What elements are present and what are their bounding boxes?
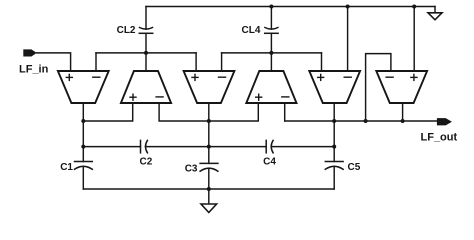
wire OTA4 output stub [270, 53, 272, 71]
wire CL4 bottom lead [270, 33, 272, 53]
wire OTA2 - input to node V2 rail and OTA4 + input [159, 103, 258, 121]
OTA3 plus sign [192, 74, 198, 80]
junction output rail / OTA6 out [401, 119, 405, 123]
capacitor C2 [141, 140, 148, 152]
wire node V1 column below C1 [82, 167, 84, 189]
op-amp OTA6 (output transconductor, wide-top, inputs reversed) [376, 71, 427, 103]
junction node V3 / OTA5 out [332, 119, 336, 123]
wire OTA3 - input stub [221, 53, 223, 71]
wire OTA3 + input stub [195, 53, 197, 71]
wire OTA5 + input stub [321, 53, 323, 71]
junction node V1 / C2 rail [81, 145, 85, 149]
op-amp OTA5 (wide-top) [309, 71, 360, 103]
wire rail B (OTA3- / OTA4 out / OTA5+) [222, 52, 322, 54]
svg-text:CL2: CL2 [117, 25, 136, 36]
OTA3 minus sign [219, 76, 226, 78]
port arrow LF_in [23, 49, 36, 56]
OTA4 minus sign [282, 96, 289, 98]
ground symbol top right [428, 13, 442, 20]
op-amp OTA3 (wide-top) [184, 71, 235, 103]
wire node V2 column below C3 [208, 169, 210, 189]
wire OTA1 - input stub [95, 53, 97, 71]
wire CL2 top lead [145, 7, 147, 30]
wire CL2 bottom lead [145, 33, 147, 53]
capacitor CL2 [139, 28, 152, 34]
junction node V2 mid rail [207, 119, 211, 123]
svg-text:CL4: CL4 [241, 25, 260, 36]
wire input net LF_in to OTA1 + [37, 53, 71, 71]
OTA6 plus sign [411, 74, 417, 80]
junction ground rail [207, 187, 211, 191]
junction node rail A / CL2 [144, 51, 148, 55]
wire OTA6 output stub [402, 103, 404, 121]
wire C2/C4 rail middle segment [145, 146, 266, 148]
OTA1 minus sign [93, 76, 100, 78]
junction top rail / CL4 [269, 5, 273, 9]
capacitor C1 [75, 162, 93, 170]
OTA5 minus sign [344, 76, 351, 78]
wire node V3 column (OTA5 out to C5) [333, 103, 335, 162]
svg-text:C2: C2 [140, 157, 153, 168]
wire ground stem top right [434, 7, 436, 13]
junction node V1 mid rail [81, 119, 85, 123]
svg-text:C1: C1 [60, 162, 73, 173]
OTA5 plus sign [318, 74, 324, 80]
svg-text:LF_out: LF_out [421, 131, 458, 143]
wire node V3 column below C5 [333, 167, 335, 189]
junction node V2 / C2 C4 rail [207, 145, 211, 149]
capacitor C3 [200, 163, 218, 171]
capacitor CL4 [265, 28, 278, 34]
svg-text:C3: C3 [185, 164, 198, 175]
wire top rail [146, 6, 435, 8]
op-amp OTA2 (feedback transconductor, wide-bottom) [121, 71, 171, 103]
wire node V1 column (OTA1 out to C1) [82, 103, 84, 162]
wire CL4 top lead [270, 7, 272, 30]
op-amp OTA4 (feedback transconductor, wide-bottom) [246, 71, 296, 103]
junction top rail / OTA6 + [412, 5, 416, 9]
OTA1 plus sign [66, 74, 72, 80]
junction node rail B / CL4 [269, 51, 273, 55]
OTA6 minus sign [386, 76, 393, 78]
wire rail A (OTA1- / OTA2 out / OTA3+) [96, 52, 196, 54]
wire output rail to LF_out [285, 120, 438, 122]
wire OTA5 - input from top rail [347, 7, 349, 72]
wire OTA6 + input from top rail [413, 7, 415, 72]
wire bottom ground rail [83, 188, 334, 190]
svg-text:LF_in: LF_in [19, 63, 49, 75]
OTA2 minus sign [156, 96, 163, 98]
capacitor C5 [325, 162, 343, 170]
svg-text:C4: C4 [263, 157, 276, 168]
wire OTA2 output stub [145, 53, 147, 71]
op-amp OTA1 (transconductor, wide-top) [58, 71, 109, 103]
junction top rail / OTA5 - [346, 5, 350, 9]
junction output rail / OTA6 feedback [364, 119, 368, 123]
port arrow LF_out [437, 118, 452, 125]
ground symbol bottom [201, 204, 217, 213]
wire C4 rail right segment [271, 146, 334, 148]
OTA2 plus sign [130, 94, 136, 100]
wire OTA6 - feedback loop [366, 54, 391, 121]
wire OTA4 - input down to output rail [284, 103, 286, 121]
wire node V2 column (OTA3 out to C3) [208, 103, 210, 163]
wire OTA2 + input to node V1 [83, 103, 132, 121]
wire C2 rail left segment [83, 146, 140, 148]
svg-text:C5: C5 [348, 162, 361, 173]
junction node V3 / C4 rail [332, 145, 336, 149]
capacitor C4 [266, 140, 273, 152]
OTA4 plus sign [256, 94, 262, 100]
wire ground stem bottom [208, 189, 210, 204]
